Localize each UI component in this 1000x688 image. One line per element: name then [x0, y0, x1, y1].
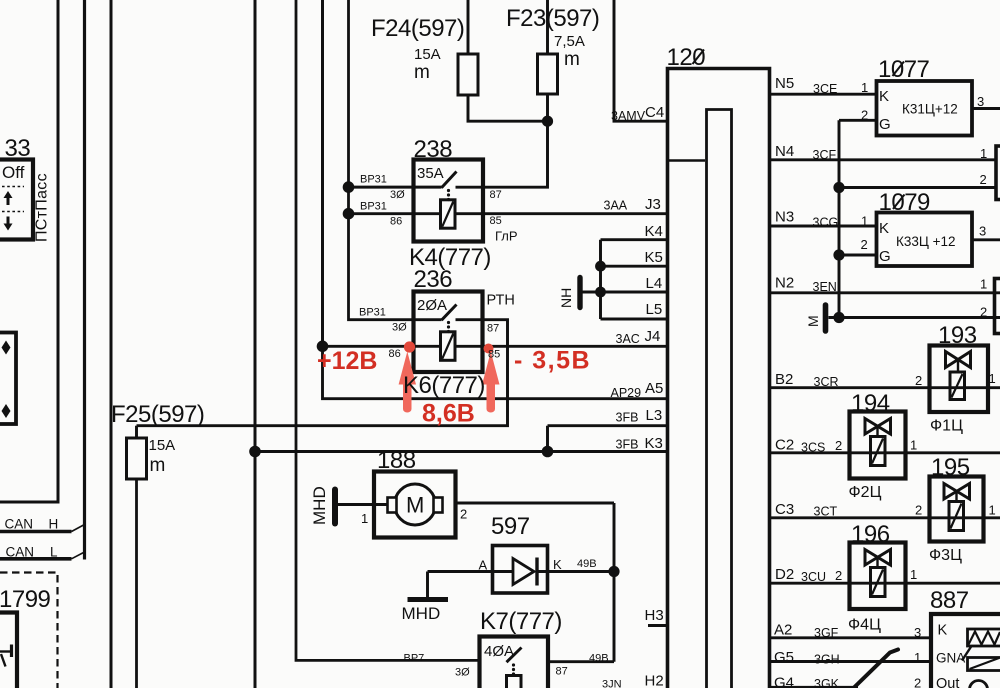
- svg-text:1: 1: [361, 511, 368, 526]
- svg-text:Ф3Ц: Ф3Ц: [929, 547, 962, 564]
- svg-text:194: 194: [851, 390, 890, 417]
- svg-text:3CU: 3CU: [801, 570, 826, 584]
- svg-text:597: 597: [491, 513, 530, 540]
- wire U1079 pin 3: [972, 238, 1000, 241]
- wire bus V4: [254, 0, 257, 688]
- switch 33 box: [0, 160, 33, 240]
- box 887 outline: [931, 614, 1000, 688]
- svg-text:3CE: 3CE: [813, 82, 837, 96]
- wire relay K4 pin 87 inside: [456, 186, 484, 189]
- svg-text:K7(777): K7(777): [480, 608, 562, 635]
- svg-text:F25(597): F25(597): [111, 401, 204, 428]
- svg-text:N3: N3: [775, 209, 794, 226]
- wire 3AMV to pin C4: [614, 0, 666, 121]
- wire bus V2 CAN trunk: [83, 0, 86, 560]
- svg-text:B2: B2: [775, 371, 793, 388]
- svg-text:2: 2: [835, 568, 842, 583]
- box U1077: [877, 81, 973, 136]
- svg-text:L4: L4: [646, 275, 663, 292]
- svg-text:2: 2: [835, 438, 842, 453]
- relay K6 switch arm: [442, 305, 457, 321]
- motor 188 box: [374, 472, 456, 538]
- svg-text:- 3,5В: - 3,5В: [514, 347, 591, 375]
- right edge box 1: [996, 146, 1000, 200]
- wire V5 to K7 pin 30: [296, 0, 480, 660]
- svg-text:3: 3: [977, 94, 984, 109]
- svg-text:3CF: 3CF: [813, 148, 837, 162]
- svg-text:BP31: BP31: [360, 201, 387, 213]
- svg-text:CAN: CAN: [6, 545, 35, 560]
- relay K6 switch link dots: [447, 321, 450, 324]
- svg-text:ГлР: ГлР: [495, 229, 518, 244]
- wire vertical diode node to K7: [613, 503, 616, 662]
- fuse F24: [458, 54, 478, 95]
- svg-text:BP31: BP31: [359, 307, 386, 319]
- svg-text:15A: 15A: [414, 46, 441, 63]
- svg-text:1: 1: [861, 80, 868, 95]
- svg-text:K6(777): K6(777): [403, 372, 485, 399]
- svg-text:1: 1: [989, 503, 996, 518]
- svg-text:N4: N4: [775, 143, 794, 160]
- svg-text:AP29: AP29: [611, 386, 642, 400]
- wire 3GH pin G5 to 887 GNA: [771, 660, 931, 663]
- svg-text:N5: N5: [775, 75, 794, 92]
- diamond b: [2, 404, 11, 418]
- svg-text:K: K: [879, 220, 889, 237]
- svg-text:3AMV: 3AMV: [611, 109, 646, 123]
- svg-text:J3: J3: [645, 196, 661, 213]
- svg-text:Ф1Ц: Ф1Ц: [930, 418, 963, 435]
- wire 3CF pin N4: [771, 158, 996, 161]
- red annotations: [399, 341, 500, 412]
- wire motor pin 2 to diode node: [456, 502, 615, 505]
- wire 3CG pin N3 to U1079: [771, 225, 877, 228]
- wire relay K4 pin 30: [349, 186, 442, 189]
- svg-text:35A: 35A: [417, 165, 444, 182]
- wire relay K6 pin 86 coil: [323, 345, 441, 348]
- wire F23 feed: [546, 0, 549, 54]
- svg-text:195: 195: [931, 454, 970, 481]
- valve 196 coil diagonal: [872, 570, 883, 595]
- relay K4 coil: [441, 200, 456, 228]
- diode 597 box: [493, 546, 548, 594]
- node BP31 lower: [343, 208, 355, 220]
- relay K4 switch arm: [442, 172, 457, 188]
- svg-text:BP31: BP31: [360, 174, 387, 186]
- svg-text:3Ø: 3Ø: [455, 667, 470, 679]
- wire NH to L4: [583, 291, 601, 294]
- svg-text:K: K: [879, 88, 889, 105]
- svg-text:C4: C4: [645, 104, 664, 121]
- valve 195 coil diagonal: [951, 504, 962, 529]
- svg-text:33: 33: [5, 135, 31, 162]
- svg-text:3CS: 3CS: [801, 441, 825, 455]
- wire AP29 to pin A5: [323, 346, 667, 398]
- svg-text:236: 236: [414, 266, 453, 293]
- valve 195 coil: [949, 502, 964, 531]
- wire U1077 pin 2 G: [839, 119, 877, 122]
- svg-text:1079: 1079: [879, 189, 931, 216]
- svg-text:Ф2Ц: Ф2Ц: [849, 484, 882, 501]
- svg-text:F24(597): F24(597): [371, 15, 464, 42]
- relay K6 box 236: [414, 292, 483, 373]
- svg-text:3GK: 3GK: [814, 677, 840, 688]
- svg-text:1: 1: [910, 438, 917, 453]
- wire 3CU pin D2 through valve 196: [771, 582, 1000, 585]
- wire 3GF pin A2 to 887 K: [771, 636, 931, 639]
- svg-text:4ØA: 4ØA: [484, 643, 514, 660]
- relay K4 switch link dots: [447, 189, 450, 192]
- svg-text:1: 1: [914, 650, 921, 665]
- box U1079: [877, 213, 973, 267]
- svg-text:F23(597): F23(597): [506, 5, 599, 32]
- valve 194 coil diagonal: [872, 439, 883, 464]
- relay K7 box: [480, 637, 549, 688]
- wire 3EN pin N2: [771, 291, 1000, 294]
- node F23/F24 junction: [542, 116, 553, 127]
- red arrow right: [482, 352, 499, 413]
- wire node839 to right box 1: [839, 186, 996, 189]
- motor brush right: [434, 498, 443, 513]
- valve 193 coil diagonal: [952, 374, 963, 398]
- wire F25 top stub: [135, 426, 138, 438]
- relay K4 coil diagonal: [442, 202, 453, 227]
- valve 193 coil: [950, 372, 965, 400]
- red arrow left: [399, 352, 416, 413]
- box 1799 inner: [0, 613, 17, 688]
- svg-text:15A: 15A: [149, 437, 176, 454]
- svg-text:N2: N2: [775, 275, 794, 292]
- svg-text:G5: G5: [774, 649, 794, 666]
- svg-text:1: 1: [861, 214, 868, 229]
- svg-text:3GH: 3GH: [814, 653, 840, 667]
- svg-text:887: 887: [930, 587, 969, 614]
- svg-text:J4: J4: [645, 328, 661, 345]
- valve 195 bowtie: [944, 484, 970, 500]
- relay K6 coil: [441, 332, 456, 361]
- svg-text:D2: D2: [775, 566, 794, 583]
- svg-text:2ØA: 2ØA: [417, 297, 447, 314]
- svg-text:3: 3: [979, 224, 986, 239]
- motor 188 circle: [395, 484, 436, 525]
- CAN H link tick: [72, 525, 85, 532]
- svg-text:2: 2: [460, 507, 467, 522]
- 887 slash diagonal: [962, 646, 972, 661]
- svg-text:1077: 1077: [878, 56, 930, 83]
- node 49B: [608, 566, 619, 577]
- 887 box inner diagonal: [970, 658, 1000, 669]
- svg-text:К31Ц+12: К31Ц+12: [902, 102, 958, 117]
- svg-text:L: L: [50, 545, 58, 560]
- svg-text:m: m: [414, 62, 430, 83]
- svg-text:G: G: [879, 248, 891, 265]
- svg-text:3: 3: [914, 625, 921, 640]
- valve 193 bowtie: [946, 352, 971, 368]
- svg-text:K: K: [938, 623, 948, 639]
- wire 3CE pin N5 to U1077: [771, 93, 877, 96]
- svg-text:1: 1: [980, 146, 987, 161]
- svg-text:193: 193: [938, 322, 977, 349]
- valve 193 box: [930, 346, 989, 413]
- switch 33 arrow up: [7, 196, 10, 205]
- wire relay K7 pin 87 49B: [548, 660, 614, 663]
- wire M bar to edge: [829, 316, 1000, 319]
- window lift box: [0, 333, 16, 425]
- pin H3 stub: [648, 624, 666, 627]
- ground bar MHD diode: [408, 597, 449, 602]
- relay K6 coil diagonal: [442, 334, 453, 359]
- svg-text:BP7: BP7: [404, 653, 425, 665]
- switch 33 dotted a: [2, 186, 24, 188]
- svg-text:2: 2: [980, 172, 987, 187]
- 887 out circle: [970, 681, 988, 688]
- svg-text:M: M: [406, 493, 424, 518]
- valve 194 bowtie: [865, 419, 891, 435]
- svg-text:К33Ц +12: К33Ц +12: [896, 234, 956, 249]
- wire relay K4 pin 86 coil: [349, 212, 441, 215]
- node 839 a: [833, 182, 844, 193]
- svg-text:Ф4Ц: Ф4Ц: [848, 617, 881, 634]
- svg-text:86: 86: [389, 348, 401, 360]
- wire V6 to node +12V and AP29: [321, 0, 324, 346]
- wire 3CR pin B2 through valve 193: [771, 386, 1000, 389]
- wire bus V1 left bracket: [0, 0, 58, 502]
- node +12V: [317, 341, 329, 353]
- right edge box 2: [995, 279, 1000, 334]
- wire 3GK pin G4: [771, 686, 858, 688]
- wire relay K6 pin 87 down to F25 wire: [137, 320, 508, 426]
- svg-text:85: 85: [488, 349, 500, 361]
- dashed box 1799: [0, 573, 58, 688]
- svg-text:188: 188: [377, 447, 416, 474]
- wire 3FB L3 branch: [548, 426, 667, 452]
- svg-text:196: 196: [851, 521, 890, 548]
- node red dot 86: [404, 341, 415, 352]
- svg-text:K4: K4: [645, 223, 663, 240]
- fuse F23: [538, 54, 558, 94]
- svg-text:2: 2: [980, 305, 987, 320]
- svg-text:C3: C3: [775, 501, 794, 518]
- 887 resistor zigzag box: [968, 629, 1000, 646]
- svg-text:120: 120: [667, 44, 706, 71]
- svg-text:Out: Out: [936, 676, 959, 688]
- diode D1 bar: [535, 558, 538, 586]
- svg-text:3JN: 3JN: [602, 679, 622, 688]
- ground bar NH: [577, 278, 582, 308]
- wire motor pin 1: [338, 503, 395, 506]
- wire 3AC relay K6 pin 85 to pin J4: [455, 345, 666, 348]
- svg-text:G: G: [879, 116, 891, 133]
- svg-text:8,6В: 8,6В: [422, 400, 475, 428]
- svg-text:NH: NH: [558, 288, 574, 308]
- valve 196 bowtie: [865, 550, 891, 566]
- svg-text:H3: H3: [645, 607, 664, 624]
- wire bus V3: [110, 0, 113, 688]
- svg-text:L3: L3: [646, 407, 663, 424]
- svg-text:ПСтПасс: ПСтПасс: [34, 173, 51, 242]
- svg-text:L5: L5: [646, 301, 663, 318]
- node L4: [595, 287, 606, 298]
- svg-text:3CT: 3CT: [814, 505, 838, 519]
- svg-text:3CG: 3CG: [813, 216, 839, 230]
- diode D1 triangle: [513, 559, 534, 585]
- wire V7 to relay K6 pin 30: [349, 0, 442, 320]
- switch 33 arrow down: [7, 217, 10, 226]
- svg-text:3CR: 3CR: [814, 375, 839, 389]
- connector 120 inner rect: [707, 110, 732, 688]
- svg-text:87: 87: [556, 666, 568, 678]
- wire F24 to node F23: [468, 95, 548, 121]
- svg-text:MHD: MHD: [402, 604, 441, 623]
- svg-text:87: 87: [487, 323, 499, 335]
- svg-text:85: 85: [490, 215, 502, 227]
- diamond a: [2, 341, 11, 355]
- svg-text:2: 2: [915, 503, 922, 518]
- svg-text:C2: C2: [775, 437, 794, 454]
- svg-text:H: H: [49, 517, 59, 532]
- ground bar M: [823, 305, 829, 331]
- svg-text:CAN: CAN: [5, 517, 34, 532]
- wire CAN L: [0, 557, 72, 561]
- valve 196 coil: [871, 568, 886, 597]
- node BP31 upper: [343, 181, 355, 193]
- switch 33 dotted b: [2, 211, 24, 213]
- valve 196 box: [850, 543, 906, 610]
- wire 3FB to pin K3: [255, 450, 666, 453]
- wire F23 to relay K4 pin 87: [483, 94, 548, 187]
- fuse F25: [127, 438, 147, 479]
- svg-text:H2: H2: [645, 673, 664, 688]
- mirror arrow glyph: [0, 650, 11, 652]
- wire K4 K5 L4 L5 group: [601, 240, 667, 319]
- motor brush left: [388, 498, 397, 513]
- svg-text:A5: A5: [645, 380, 663, 397]
- connector 120 inner divider: [669, 159, 705, 161]
- 887 resistor zigzag: [969, 632, 1000, 645]
- svg-text:K: K: [553, 557, 562, 572]
- svg-text:3Ø: 3Ø: [390, 189, 405, 201]
- svg-text:K5: K5: [645, 249, 663, 266]
- svg-text:1799: 1799: [0, 586, 51, 613]
- valve 196 stem: [876, 558, 878, 568]
- svg-text:87: 87: [490, 189, 502, 201]
- svg-text:K3: K3: [645, 435, 663, 452]
- CAN L link tick: [72, 552, 85, 559]
- relay K4 box 238: [414, 160, 484, 242]
- relay K7 switch arm: [507, 648, 522, 663]
- svg-text:М: М: [805, 315, 821, 327]
- svg-text:3AC: 3AC: [616, 332, 640, 346]
- wire diode cathode 49B: [536, 570, 614, 573]
- relay K7 coil: [507, 676, 522, 688]
- svg-text:+12В: +12В: [317, 347, 377, 375]
- wire F25 bottom: [135, 479, 138, 688]
- wire anode to ground: [426, 572, 429, 598]
- svg-text:A: A: [479, 558, 488, 573]
- svg-text:3FB: 3FB: [616, 411, 639, 425]
- svg-text:GNA: GNA: [936, 651, 965, 666]
- connector 120 outer box: [668, 69, 770, 688]
- svg-text:A2: A2: [774, 622, 792, 639]
- valve 193 stem: [957, 360, 959, 372]
- valve 194 stem: [876, 427, 878, 437]
- svg-text:3GF: 3GF: [814, 626, 839, 640]
- wire bus x839: [838, 120, 841, 317]
- svg-text:3Ø: 3Ø: [392, 322, 407, 334]
- svg-text:3AA: 3AA: [604, 199, 628, 213]
- svg-text:m: m: [564, 49, 580, 70]
- wire F24 feed: [467, 0, 470, 54]
- svg-text:G4: G4: [774, 675, 794, 688]
- wire U1079 pin 2 G: [839, 254, 877, 257]
- node 839 b: [833, 249, 844, 260]
- svg-text:2: 2: [915, 373, 922, 388]
- svg-text:86: 86: [390, 216, 402, 228]
- valve 194 box: [850, 412, 906, 479]
- svg-text:1: 1: [910, 567, 917, 582]
- svg-text:2: 2: [861, 108, 868, 123]
- wire U1077 pin 3: [972, 107, 1000, 110]
- relay K7 switch link dots: [512, 663, 515, 666]
- svg-text:49B: 49B: [589, 653, 609, 665]
- valve 195 box: [930, 477, 984, 542]
- svg-text:1: 1: [989, 371, 996, 386]
- 887 slashed box: [968, 658, 1000, 671]
- svg-text:Off: Off: [2, 163, 25, 182]
- svg-text:РТН: РТН: [487, 293, 515, 309]
- node 3FB branch: [542, 446, 554, 458]
- switch lever 3GH: [854, 650, 899, 688]
- wire diode anode: [428, 570, 514, 573]
- svg-text:2: 2: [914, 676, 921, 688]
- svg-text:3EN: 3EN: [813, 280, 837, 294]
- valve 194 coil: [871, 437, 886, 466]
- node K5: [595, 261, 606, 272]
- node 839 c: [833, 312, 844, 323]
- svg-text:m: m: [150, 455, 166, 476]
- wire 3CS pin C2 through valve 194: [771, 451, 1000, 454]
- svg-text:49B: 49B: [577, 558, 597, 570]
- wire 3CT pin C3 through valve 195: [771, 516, 1000, 519]
- valve 195 stem: [955, 492, 957, 502]
- svg-text:238: 238: [414, 136, 453, 163]
- svg-text:1: 1: [980, 277, 987, 292]
- wire CAN H: [0, 530, 72, 534]
- motor M1 ground bar MHD: [332, 490, 338, 524]
- node V4 to 3FB: [249, 446, 261, 458]
- svg-text:3FB: 3FB: [616, 438, 639, 452]
- svg-text:MHD: MHD: [310, 486, 329, 525]
- wire 3AA relay K4 pin 85 to pin J3: [455, 212, 666, 215]
- svg-text:7,5A: 7,5A: [554, 33, 585, 50]
- svg-text:2: 2: [861, 237, 868, 252]
- node red dot 85: [484, 344, 494, 354]
